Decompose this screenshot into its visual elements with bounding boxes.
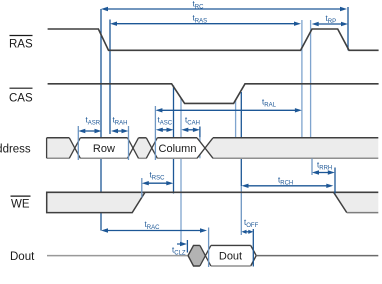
arrow tASC	[161, 129, 168, 131]
tick: row address end x=128.5	[128, 126, 130, 160]
arrow tRP	[317, 23, 343, 25]
reference line: CAS rise first x=235.6 light	[235, 100, 237, 138]
WE high line	[47, 191, 379, 193]
Dout crossover X	[200, 245, 211, 266]
Dout valid cell fill	[205, 245, 256, 266]
tick: Dout valid x=208.6	[208, 228, 210, 268]
arrow tRC	[106, 8, 342, 10]
arrow tRSC	[147, 182, 168, 184]
svg-text:Column: Column	[159, 143, 197, 155]
svg-text:WE: WE	[11, 199, 30, 211]
address bus segment: initial invalid (gray fill)	[47, 138, 75, 159]
arrow tRRH	[317, 172, 329, 174]
WE dont-care band left	[47, 192, 145, 212]
reference line: CAS fall (tASC/tRSC) x=173.5	[173, 86, 175, 194]
address bus small invalid diamond fill	[133, 138, 152, 159]
reference line: CAS rise second (tRCH/tOFF) x=241.3	[240, 92, 242, 186]
svg-text:Dout: Dout	[10, 251, 35, 263]
reference line: RAS rise first x=302 light	[301, 20, 303, 138]
address bus crossover X diagonals	[69, 138, 80, 159]
signal label WE (overline)	[11, 195, 31, 197]
signal label CAS (overline)	[10, 87, 33, 89]
Dout hexagon edges	[188, 245, 200, 255]
svg-text:Dout: Dout	[219, 251, 242, 263]
reference line: column address end x=199.9 light (behind bus)	[199, 138, 201, 159]
arrow tRCH	[247, 185, 328, 187]
arrow tRAH	[116, 130, 123, 132]
arrow tASR	[84, 130, 97, 132]
svg-text:Address: Address	[0, 144, 31, 156]
tick: address valid x=78.3	[77, 126, 79, 160]
CAS waveform	[48, 84, 379, 104]
svg-text:CAS: CAS	[9, 93, 33, 105]
tick: Dout off x=253.3	[252, 229, 254, 267]
tick: column address end x=199.9 (above bus)	[199, 127, 201, 138]
signal label RAS (overline)	[10, 35, 33, 37]
address bus left edge	[46, 138, 48, 159]
tick: tRRH left x=312	[311, 159, 313, 176]
reference line: RAS 2nd fall (tRC/tRP end) x=348	[347, 7, 349, 50]
Dout high-Z line left	[47, 255, 188, 257]
svg-text:RAS: RAS	[9, 39, 33, 51]
tick: tRSC left x=141.8	[141, 178, 143, 198]
address bus segment: trailing invalid fill	[205, 138, 378, 159]
arrow tRAL	[161, 109, 297, 111]
WE dont-care band right	[334, 192, 379, 212]
arrow tCAH	[187, 129, 195, 131]
reference line: CAS rise to tOFF (lower, light)	[240, 186, 242, 235]
reference line: RAS fall (tRC/tRAC origin) x=101	[100, 9, 102, 231]
tick: Dout low-Z x=187.4	[186, 240, 188, 253]
RAS waveform	[48, 29, 379, 50]
arrow tRAC	[106, 230, 202, 232]
reference line: CAS fall second (tCAH/tCLZ) x=181 light	[180, 98, 182, 244]
address bus cell Column fill	[152, 138, 205, 159]
arrow tRAS	[115, 23, 296, 25]
tick: column address valid x=155.4	[154, 106, 156, 160]
address bus bottom edges (light)	[47, 157, 69, 159]
arrow tOFF	[245, 231, 249, 233]
address bus top edges (dark)	[47, 137, 70, 139]
svg-text:Row: Row	[93, 143, 115, 155]
reference line: RAS rise second x=310.6 light	[310, 20, 312, 138]
tick: WE change x=335	[334, 168, 336, 194]
Dout invalid hexagon (gray) fill	[188, 245, 205, 266]
Dout line right	[256, 255, 378, 257]
reference line: RAS fall second (tRAS/tRAH origin) x=110	[109, 20, 111, 135]
address bus cell Row fill	[75, 138, 133, 159]
arrow tCLZ (single)	[177, 243, 182, 245]
